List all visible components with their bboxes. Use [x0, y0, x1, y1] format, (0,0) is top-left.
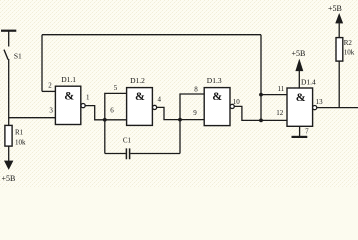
gate D1.4 body: [287, 88, 313, 126]
wire R2 to output: [338, 61, 340, 108]
svg-text:13: 13: [316, 98, 324, 106]
wire node A to pin 5: [105, 93, 127, 119]
wire C1 left lead: [105, 153, 126, 155]
+5B arrow down (left): [5, 161, 13, 169]
gate D1.2 output bubble: [153, 105, 157, 109]
gate D1.2 body: [127, 88, 153, 126]
wire switch to node R1: [8, 59, 10, 125]
wire top to pin 2: [41, 35, 43, 92]
svg-text:R1: R1: [15, 129, 24, 137]
wire node B down to C1: [179, 120, 181, 154]
wire R1 to +5B arrow: [8, 146, 10, 161]
wire pin 10 to pin 12: [234, 106, 287, 120]
switch S1 blade: [4, 50, 8, 60]
wire R2 to +5B arrow: [338, 23, 340, 37]
feedback top wire: [42, 34, 261, 36]
svg-text:+5B: +5B: [2, 174, 16, 183]
wire node to pin 3: [9, 117, 56, 119]
svg-text:&: &: [135, 89, 145, 103]
wire node A down to C1: [104, 120, 106, 154]
wire +5B to D1.4 power: [298, 71, 300, 88]
gate D1.1 body: [55, 86, 80, 124]
svg-text:9: 9: [193, 109, 197, 117]
node B junction dot: [178, 118, 182, 122]
node D junction dot: [259, 93, 263, 97]
wire node C up to top wire: [260, 35, 262, 121]
svg-text:+5B: +5B: [328, 4, 342, 13]
svg-text:10k: 10k: [344, 48, 355, 56]
capacitor C1 plates: [126, 148, 129, 159]
wire node B to pin 8: [180, 94, 204, 120]
wire into pin 2: [42, 90, 55, 92]
resistor R1 body: [5, 125, 12, 146]
svg-text:D1.4: D1.4: [301, 78, 316, 87]
svg-text:6: 6: [110, 107, 114, 115]
gate D1.3 body: [204, 88, 230, 126]
svg-text:4: 4: [158, 96, 162, 104]
svg-text:S1: S1: [14, 52, 22, 61]
svg-text:12: 12: [276, 109, 284, 117]
wire terminal to switch: [8, 32, 10, 47]
+5B arrow up (R2): [336, 14, 343, 23]
resistor R2 body: [336, 38, 343, 62]
svg-text:11: 11: [278, 85, 285, 93]
+5B arrow up (D1.4): [296, 60, 303, 71]
svg-text:C1: C1: [123, 136, 132, 144]
svg-text:10: 10: [233, 98, 241, 106]
svg-text:10k: 10k: [15, 139, 26, 147]
svg-text:&: &: [64, 88, 74, 102]
svg-text:8: 8: [194, 85, 198, 93]
svg-text:&: &: [212, 89, 222, 103]
gate D1.3 output bubble: [230, 104, 234, 108]
svg-text:D1.3: D1.3: [207, 76, 222, 85]
wire pin 1 to node A: [85, 106, 126, 120]
svg-text:2: 2: [48, 82, 52, 90]
svg-text:7: 7: [305, 128, 309, 136]
svg-text:5: 5: [114, 84, 118, 92]
wire pin 4 to pin 9: [157, 107, 205, 119]
wire C1 right lead: [130, 153, 180, 155]
svg-text:3: 3: [49, 107, 53, 115]
wire pin 7 to ground: [299, 126, 301, 137]
svg-text:D1.2: D1.2: [130, 76, 145, 85]
svg-text:+5B: +5B: [292, 49, 306, 58]
wire node D to pin 11: [261, 94, 287, 96]
svg-text:R2: R2: [344, 39, 353, 47]
node A junction dot: [103, 118, 107, 122]
svg-text:D1.1: D1.1: [61, 75, 76, 84]
terminal X1 top bar: [1, 30, 16, 32]
svg-text:1: 1: [86, 93, 90, 101]
svg-text:&: &: [296, 90, 306, 104]
wire pin 13 output: [317, 107, 358, 109]
ground bar: [292, 136, 308, 138]
node C junction dot: [259, 119, 263, 123]
gate D1.4 output bubble: [313, 106, 317, 110]
gate D1.1 output bubble: [81, 104, 85, 108]
